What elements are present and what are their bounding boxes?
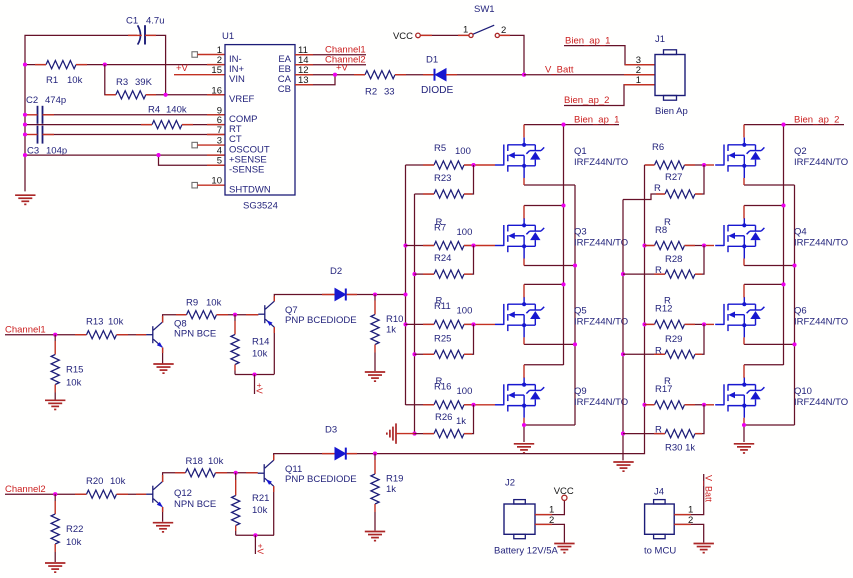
svg-text:Q1: Q1: [574, 146, 587, 157]
svg-text:SHTDWN: SHTDWN: [229, 185, 271, 196]
svg-text:+V: +V: [255, 544, 265, 555]
resistor R21: [235, 473, 237, 480]
resistor R11 100 (gate): [434, 320, 464, 328]
node gate junction Q9: [471, 403, 475, 407]
wire +SENSE row: [25, 154, 225, 156]
wire left gate rail: [405, 165, 407, 405]
svg-text:J1: J1: [655, 34, 665, 45]
wire D3 to R19 node: [347, 453, 375, 455]
transistor Q4 IRFZ44N: [715, 218, 764, 259]
svg-text:R1: R1: [46, 75, 58, 86]
svg-text:Bien_ap_2: Bien_ap_2: [794, 115, 839, 126]
wire Q11 bottom: [273, 486, 275, 535]
svg-text:NPN BCE: NPN BCE: [174, 499, 216, 510]
wire Q1 source: [524, 184, 575, 186]
svg-text:C2: C2: [26, 95, 38, 106]
resistor R14: [234, 315, 236, 321]
diode D2: [335, 289, 346, 301]
wire gate stub right: [704, 323, 714, 325]
wire pulldown row: [415, 353, 435, 355]
node rail junctions: [23, 63, 27, 67]
svg-text:R6: R6: [652, 142, 664, 153]
svg-text:to MCU: to MCU: [644, 545, 676, 556]
wire Q7 top to D2: [274, 295, 335, 302]
resistor R26 (pulldown): [434, 430, 464, 438]
svg-text:R7: R7: [434, 222, 446, 233]
resistor R3: [116, 91, 146, 99]
wire gate stub right: [704, 404, 714, 406]
wire Q1 drain: [523, 125, 525, 138]
wire pulldown row right: [623, 273, 665, 275]
wire gate row: [406, 245, 435, 247]
wire gate stub: [474, 323, 496, 325]
svg-text:10k: 10k: [206, 298, 222, 309]
wire Bien_ap_1 top rail: [524, 124, 619, 126]
svg-text:IRFZ44N/TO: IRFZ44N/TO: [574, 397, 628, 408]
svg-text:R15: R15: [66, 364, 83, 375]
wire Q10 drain: [744, 364, 784, 366]
wire Q9 source to ground: [523, 424, 525, 442]
wire J2 pin2 to ground: [535, 524, 564, 542]
svg-text:R27: R27: [665, 172, 682, 183]
wire pin12 CA: [295, 74, 365, 76]
connector J4 to MCU: [645, 504, 675, 534]
svg-text:R16: R16: [434, 382, 451, 393]
wire J4 pin2 to ground: [674, 524, 704, 542]
svg-text:Bien_ap_2: Bien_ap_2: [564, 95, 609, 106]
wire +V to VIN pin15: [174, 74, 225, 76]
svg-text:16: 16: [211, 85, 222, 96]
wire R3 branch: [105, 65, 116, 95]
svg-text:10k: 10k: [66, 377, 82, 388]
node R9-R14 junction: [233, 313, 237, 317]
transistor Q12 NPN: [146, 482, 163, 508]
wire Q7 bottom: [273, 327, 275, 374]
resistor R28 (pulldown): [665, 270, 695, 278]
node Bien_ap_1 bank junction: [561, 123, 565, 127]
svg-text:R23: R23: [434, 173, 451, 184]
wire Q12 collector: [163, 473, 186, 482]
wire CT row: [25, 134, 38, 136]
svg-text:Q5: Q5: [574, 305, 587, 316]
wire Q12 emitter to ground: [162, 507, 164, 522]
svg-text:1k: 1k: [386, 324, 396, 335]
ground R10: [365, 372, 385, 381]
wire D2 to R10 node: [347, 294, 375, 296]
svg-text:R5: R5: [434, 143, 446, 154]
ground Q12: [153, 523, 173, 532]
node +V junction: [333, 73, 337, 77]
ground right pulldown rail: [613, 462, 633, 471]
svg-text:33: 33: [384, 87, 395, 98]
wire right source rail: [794, 185, 796, 425]
svg-text:NPN BCE: NPN BCE: [174, 329, 216, 340]
wire R27 jog to rail: [623, 194, 665, 200]
svg-text:R14: R14: [252, 336, 269, 347]
wire right drain rail: [783, 125, 785, 365]
power +V (driver2): [254, 535, 256, 554]
pin 1 terminal square: [192, 52, 198, 58]
svg-text:4.7u: 4.7u: [146, 16, 165, 27]
node Channel2 junction: [53, 492, 57, 496]
wire left pulldown rail: [414, 194, 416, 434]
transistor Q5 IRFZ44N: [495, 297, 544, 338]
svg-text:+V: +V: [255, 383, 265, 394]
wire Bien_ap_1 to J1 pin3: [564, 46, 655, 65]
svg-text:PNP BCEDIODE: PNP BCEDIODE: [285, 474, 357, 485]
wire J4 pin1 to V_Batt: [674, 474, 704, 515]
ground R19: [365, 532, 385, 541]
node gate junction Q10: [702, 403, 706, 407]
resistor R16 100 (gate): [434, 401, 464, 409]
wire left rail top-left: [25, 35, 137, 191]
wire SW1 to V_Batt rail: [500, 35, 525, 74]
resistor R13: [87, 331, 117, 339]
wire pin11 Channel1: [295, 54, 366, 56]
ground J2: [554, 544, 574, 553]
node gate junction Q1: [471, 163, 475, 167]
svg-text:10k: 10k: [252, 505, 268, 516]
wire Q5 drain: [524, 283, 564, 285]
terminal VCC (J2): [562, 495, 567, 500]
node Bien_ap_2 bank junction: [781, 123, 785, 127]
node gate junction Q6: [702, 322, 706, 326]
node R18-R21 junction: [234, 471, 238, 475]
ground R22: [45, 563, 65, 572]
wire pulldown row right: [623, 353, 665, 355]
svg-text:R29: R29: [665, 334, 682, 345]
svg-text:R24: R24: [434, 253, 451, 264]
svg-text:R13: R13: [86, 317, 103, 328]
svg-text:R18: R18: [186, 456, 203, 467]
svg-text:SW1: SW1: [474, 4, 495, 15]
wire pin14 Channel2: [295, 64, 366, 66]
svg-text:C1: C1: [126, 16, 138, 27]
resistor R15: [54, 335, 56, 341]
svg-text:7: 7: [217, 125, 222, 136]
wire C1 to VREF rail: [145, 35, 166, 94]
wire R18 to Q11 base: [216, 472, 258, 474]
node SENSE junction: [156, 153, 160, 157]
transistor Q10 IRFZ44N: [715, 377, 764, 418]
wire R14 bottom to Q7 emitter: [235, 374, 274, 376]
resistor R9: [187, 311, 217, 319]
svg-text:D3: D3: [325, 425, 337, 436]
wire left drain rail: [563, 125, 565, 365]
pin 10 terminal square: [192, 182, 198, 188]
node gate rail junctions: [403, 243, 407, 247]
svg-text:D2: D2: [330, 266, 342, 277]
resistor R10: [374, 295, 376, 301]
svg-text:VCC: VCC: [393, 31, 413, 42]
svg-text:10k: 10k: [67, 75, 83, 86]
connector J2 Battery: [504, 504, 535, 534]
svg-text:R26: R26: [435, 412, 452, 423]
ground pulldown rail (sideways): [387, 423, 396, 443]
svg-text:R21: R21: [252, 493, 269, 504]
svg-text:100: 100: [457, 386, 473, 397]
resistor R8 (gate): [655, 241, 685, 249]
node pulldown rail junctions: [412, 272, 416, 276]
ground R15: [45, 400, 65, 409]
node V_Batt junction: [522, 73, 526, 77]
wire Q11 top to D3: [274, 454, 335, 461]
svg-text:10k: 10k: [110, 476, 126, 487]
svg-text:100: 100: [457, 306, 473, 317]
svg-text:U1: U1: [222, 31, 234, 42]
svg-text:Bien_ap_1: Bien_ap_1: [565, 36, 610, 47]
svg-text:IRFZ44N/TO: IRFZ44N/TO: [574, 316, 628, 327]
resistor R17 (gate): [655, 401, 685, 409]
svg-text:Q12: Q12: [174, 488, 192, 499]
wire pulldown row: [415, 273, 435, 275]
svg-text:Bien Ap: Bien Ap: [655, 106, 688, 117]
node right pulldown rail junctions: [621, 272, 625, 276]
svg-text:D1: D1: [426, 55, 438, 66]
svg-text:100: 100: [457, 227, 473, 238]
transistor Q2 IRFZ44N: [715, 138, 764, 179]
wire right pulldown rail: [622, 200, 624, 461]
resistor R12 (gate): [655, 320, 685, 328]
resistor R24 (pulldown): [434, 270, 464, 278]
svg-text:CT: CT: [229, 134, 242, 145]
wire Q3 source: [524, 265, 575, 267]
svg-text:+V: +V: [336, 63, 349, 74]
wire R20 to Q12 base: [117, 493, 147, 495]
svg-text:R22: R22: [66, 524, 83, 535]
node gate junction Q4: [702, 243, 706, 247]
wire R3 to VREF: [146, 94, 225, 96]
wire Q4 source: [744, 265, 795, 267]
svg-text:PNP BCEDIODE: PNP BCEDIODE: [285, 315, 357, 326]
resistor R1: [46, 60, 76, 68]
svg-text:R28: R28: [665, 254, 682, 265]
svg-text:10k: 10k: [208, 456, 224, 467]
svg-text:Bien_ap_1: Bien_ap_1: [574, 115, 619, 126]
wire Q9 drain: [524, 364, 564, 366]
wire Q3 drain: [524, 205, 564, 207]
wire left source rail: [574, 185, 576, 425]
wire gate row right: [645, 323, 655, 325]
resistor R30 (pulldown): [665, 430, 695, 438]
wire R2 to D1: [395, 74, 435, 76]
node D2-R10 junction: [373, 292, 377, 296]
transistor Q9 IRFZ44N: [495, 377, 544, 418]
node +V tap 2: [253, 533, 257, 537]
wire Q10 source to ground: [743, 424, 745, 442]
svg-text:10: 10: [211, 176, 222, 187]
capacitor C1: [138, 25, 141, 44]
wire RT row: [25, 124, 152, 126]
svg-text:VREF: VREF: [229, 94, 255, 105]
ground Q9 source: [514, 444, 534, 453]
svg-text:+V: +V: [176, 63, 189, 74]
svg-text:R25: R25: [434, 333, 451, 344]
svg-text:Channel2: Channel2: [5, 484, 46, 495]
wire VCC to SW1: [421, 34, 469, 36]
transistor Q6 IRFZ44N: [715, 297, 764, 338]
resistor R20: [87, 490, 117, 498]
ground Q8: [153, 364, 173, 373]
resistor R2: [365, 71, 395, 79]
ground J4: [694, 544, 714, 553]
svg-text:IRFZ44N/TO: IRFZ44N/TO: [794, 238, 848, 249]
wire gate row right: [645, 404, 655, 406]
svg-text:R30 1k: R30 1k: [665, 443, 695, 454]
diode D3: [335, 448, 346, 460]
wire Q2 drain: [743, 125, 745, 138]
ground Q10 source: [734, 444, 754, 453]
svg-text:Q9: Q9: [574, 386, 587, 397]
node gate junction Q3: [471, 243, 475, 247]
svg-text:V_Batt: V_Batt: [704, 475, 714, 503]
wire R9 to Q7 base: [217, 314, 259, 316]
transistor Q8 NPN: [146, 322, 163, 348]
svg-text:VIN: VIN: [229, 74, 245, 85]
wire R1 row to pin2: [25, 64, 46, 66]
connector J1 Bien Ap: [655, 55, 685, 96]
wire D1 to V_Batt node: [446, 74, 524, 76]
resistor R25 (pulldown): [434, 350, 464, 358]
svg-text:Q3: Q3: [574, 227, 587, 238]
svg-text:R12: R12: [655, 304, 672, 315]
ground left rail: [15, 195, 35, 204]
wire V_Batt to J1 pin2: [524, 74, 655, 76]
transistor Q3 IRFZ44N: [495, 218, 544, 259]
power +V (driver1): [254, 375, 256, 395]
svg-text:R: R: [654, 183, 661, 194]
svg-text:R9: R9: [186, 298, 198, 309]
wire Q4 drain: [744, 205, 784, 207]
svg-text:2: 2: [501, 25, 506, 36]
resistor R22: [54, 494, 56, 501]
wire R13 to Q8 base: [117, 334, 147, 336]
resistor R7 100 (gate): [434, 241, 464, 249]
wire gate row: [406, 404, 435, 406]
wire gate row right: [645, 164, 655, 166]
svg-text:10k: 10k: [66, 537, 82, 548]
node C1-R3-VREF junction: [164, 93, 168, 97]
svg-text:-SENSE: -SENSE: [229, 165, 264, 176]
wire gate stub right: [704, 164, 714, 166]
svg-text:10k: 10k: [252, 348, 268, 359]
svg-text:Q2: Q2: [794, 146, 807, 157]
svg-text:1k: 1k: [456, 416, 466, 427]
node Channel1 junction: [53, 333, 57, 337]
transistor Q11 PNP: [258, 460, 274, 486]
wire J2 pin1 to VCC: [535, 500, 564, 514]
svg-text:V_Batt: V_Batt: [545, 65, 574, 76]
wire gate stub: [474, 404, 496, 406]
svg-text:1: 1: [636, 75, 641, 86]
svg-text:IRFZ44N/TO: IRFZ44N/TO: [794, 316, 848, 327]
pin 3 terminal square: [192, 142, 198, 148]
wire pin13 CB: [295, 75, 335, 85]
wire COMP row: [25, 114, 38, 116]
svg-text:1: 1: [463, 24, 468, 35]
svg-text:R11: R11: [434, 301, 451, 312]
resistor R27 (pulldown): [665, 190, 695, 198]
wire Q8 collector: [163, 315, 187, 323]
svg-text:R20: R20: [86, 476, 103, 487]
svg-text:VCC: VCC: [554, 486, 574, 497]
svg-text:DIODE: DIODE: [421, 85, 453, 96]
resistor R29 (pulldown): [665, 350, 695, 358]
svg-text:IRFZ44N/TO: IRFZ44N/TO: [574, 157, 628, 168]
wire Q6 source: [744, 343, 795, 345]
node D3-R19 junction: [373, 452, 377, 456]
capacitor C3: [37, 126, 39, 144]
wire gate row right: [645, 245, 655, 247]
node right gate rail junctions: [642, 243, 646, 247]
diode D1: [434, 69, 436, 81]
wire Q2 source: [744, 184, 795, 186]
wire driver1 feed to gate rail: [375, 294, 406, 296]
switch SW1: [469, 33, 473, 37]
wire Channel2 row: [5, 493, 87, 495]
svg-text:Channel1: Channel1: [5, 325, 46, 336]
svg-text:15: 15: [211, 65, 222, 76]
svg-text:J2: J2: [505, 478, 515, 489]
svg-text:IRFZ44N/TO: IRFZ44N/TO: [794, 157, 848, 168]
svg-text:5: 5: [217, 156, 222, 167]
wire Bien_ap_2 top rail: [744, 124, 844, 126]
resistor R6 (gate): [655, 161, 685, 169]
resistor R19: [374, 454, 376, 460]
wire -SENSE branch: [159, 155, 226, 165]
wire pulldown row right: [623, 433, 665, 435]
svg-text:Q10: Q10: [794, 386, 812, 397]
svg-text:39K: 39K: [135, 77, 153, 88]
svg-text:474p: 474p: [45, 95, 66, 106]
svg-text:R3: R3: [116, 77, 128, 88]
svg-text:10k: 10k: [108, 317, 124, 328]
svg-text:SG3524: SG3524: [243, 201, 278, 212]
resistor R5 100 (gate): [434, 161, 464, 169]
svg-text:J4: J4: [654, 487, 664, 498]
wire gate stub: [474, 245, 496, 247]
wire right gate rail + driver2 feed: [375, 165, 645, 454]
wire gate row: [406, 164, 435, 166]
wire gate stub right: [704, 245, 714, 247]
svg-text:100: 100: [455, 146, 471, 157]
resistor R18: [186, 469, 216, 477]
node +V tap: [252, 372, 256, 376]
wire Q5 source: [524, 343, 575, 345]
wire gate stub: [474, 164, 496, 166]
op-amp U1 SG3524 body: [225, 45, 295, 195]
svg-text:R2: R2: [365, 87, 377, 98]
wire Q6 drain: [744, 283, 784, 285]
wire gate row: [406, 323, 435, 325]
svg-text:R17: R17: [655, 384, 672, 395]
svg-text:Battery 12V/5A: Battery 12V/5A: [494, 545, 559, 556]
svg-text:IRFZ44N/TO: IRFZ44N/TO: [794, 397, 848, 408]
wire pulldown row: [415, 433, 435, 435]
node gate junction Q5: [471, 322, 475, 326]
svg-text:R4: R4: [148, 105, 160, 116]
svg-text:CB: CB: [278, 84, 291, 95]
wire pulldown row: [415, 193, 435, 195]
resistor R4: [152, 121, 182, 129]
transistor Q7 PNP: [258, 301, 274, 327]
svg-text:Q4: Q4: [794, 227, 807, 238]
svg-text:Q6: Q6: [794, 305, 807, 316]
capacitor C2: [37, 106, 39, 124]
svg-text:1k: 1k: [386, 484, 396, 495]
resistor R23 (pulldown): [434, 190, 464, 198]
wire Bien_ap_2 to J1 pin1: [564, 85, 655, 106]
